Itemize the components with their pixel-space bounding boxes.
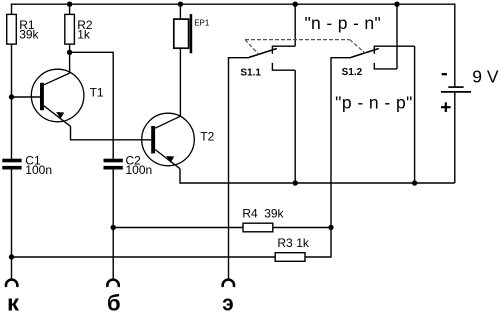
node T1 base junction xyxy=(9,94,14,99)
wire R2 bottom xyxy=(69,44,71,52)
wire top rail xyxy=(11,3,456,5)
wire R4 right xyxy=(273,227,331,229)
wire R4 node to socket B xyxy=(112,228,114,280)
svg-text:100n: 100n xyxy=(126,163,153,177)
capacitor C1 xyxy=(2,154,52,177)
switch S1.1 upper contact xyxy=(272,46,295,54)
wire EP1 to T2 collector xyxy=(179,48,181,116)
svg-text:"p - n - p": "p - n - p" xyxy=(335,93,413,113)
switch S1.1 lower contact xyxy=(272,63,295,70)
svg-text:R4: R4 xyxy=(242,206,258,220)
node top rail EP1 xyxy=(178,1,183,6)
label npn mode xyxy=(305,13,382,33)
earphone EP1 xyxy=(174,14,210,53)
wire junction to C2 xyxy=(70,52,114,158)
svg-text:э: э xyxy=(222,291,233,313)
switch S1.1 lever xyxy=(240,49,276,79)
wire bottom bus xyxy=(12,256,276,258)
node middle rail S1.1 xyxy=(293,180,298,185)
resistor R2 xyxy=(65,14,93,44)
node C2 R4 junction xyxy=(111,225,116,230)
socket B terminal xyxy=(107,280,121,313)
battery GB1 9V xyxy=(441,67,499,113)
node top rail S1.1 xyxy=(293,1,298,6)
svg-text:9 V: 9 V xyxy=(472,67,499,87)
node middle rail S1.2 xyxy=(412,180,417,185)
node top rail R2 xyxy=(67,1,72,6)
svg-text:T1: T1 xyxy=(90,85,104,99)
wire S1.1 lower contact to middle rail xyxy=(294,70,296,183)
wire T1 emitter to T2 base xyxy=(71,126,152,140)
node R4 R3 S1.2 junction xyxy=(328,225,333,230)
wire EP1 top stub xyxy=(179,4,181,19)
wire S1.2 upper contact to middle rail xyxy=(414,46,416,183)
node R2 collector junction xyxy=(67,50,72,55)
wire bus to socket K xyxy=(11,257,13,280)
svg-text:S1.1: S1.1 xyxy=(240,68,261,79)
transistor T2 xyxy=(142,113,215,169)
wire T2 emitter to middle rail xyxy=(180,169,455,183)
resistor R4 xyxy=(242,206,284,231)
wire T1 base xyxy=(12,96,41,98)
svg-text:к: к xyxy=(7,291,20,313)
svg-text:39k: 39k xyxy=(264,206,284,220)
svg-text:б: б xyxy=(107,291,121,313)
svg-text:"n - p - n": "n - p - n" xyxy=(305,13,382,33)
transistor T1 xyxy=(31,69,104,126)
wire C2 bottom to R4 node xyxy=(112,170,114,228)
wire R3 right up to junction xyxy=(305,228,331,258)
svg-text:T2: T2 xyxy=(200,129,214,143)
switch S1.2 upper contact xyxy=(374,46,414,54)
wire R1 top stub xyxy=(11,4,13,15)
wire battery bottom stub xyxy=(454,92,456,183)
node top rail S1.2 xyxy=(394,1,399,6)
wire base node to C1 xyxy=(11,97,13,159)
wire S1.1 upper contact to top rail xyxy=(294,4,296,46)
wire S1.2 lower contact to top rail xyxy=(396,4,398,69)
wire C1 bottom to bus xyxy=(11,170,13,258)
svg-text:S1.2: S1.2 xyxy=(342,67,363,78)
node C1 bus junction xyxy=(9,254,14,259)
wire battery top stub xyxy=(454,4,456,86)
wire R4 left xyxy=(113,227,243,229)
switch S1.2 lever xyxy=(342,49,379,78)
svg-text:EP1: EP1 xyxy=(194,18,210,27)
wire S1.1 pole to socket E xyxy=(229,58,250,280)
resistor R3 xyxy=(275,236,310,261)
resistor R1 xyxy=(7,14,40,44)
capacitor C2 xyxy=(104,154,153,177)
wire T1 collector stub xyxy=(69,52,71,73)
socket E terminal xyxy=(222,280,234,313)
wire R2 top stub xyxy=(69,4,71,14)
svg-text:39k: 39k xyxy=(19,28,39,42)
socket K terminal xyxy=(6,280,20,313)
switch S1.2 lower contact xyxy=(374,63,397,69)
wire S1.2 pole down xyxy=(331,58,351,228)
svg-text:1k: 1k xyxy=(77,28,91,42)
wire R1 bottom to base node xyxy=(11,44,13,97)
dashed gang coupling line xyxy=(245,40,366,55)
svg-text:100n: 100n xyxy=(25,163,52,177)
svg-text:R3: R3 xyxy=(277,236,293,250)
label pnp mode xyxy=(335,93,413,113)
svg-text:1k: 1k xyxy=(296,236,310,250)
